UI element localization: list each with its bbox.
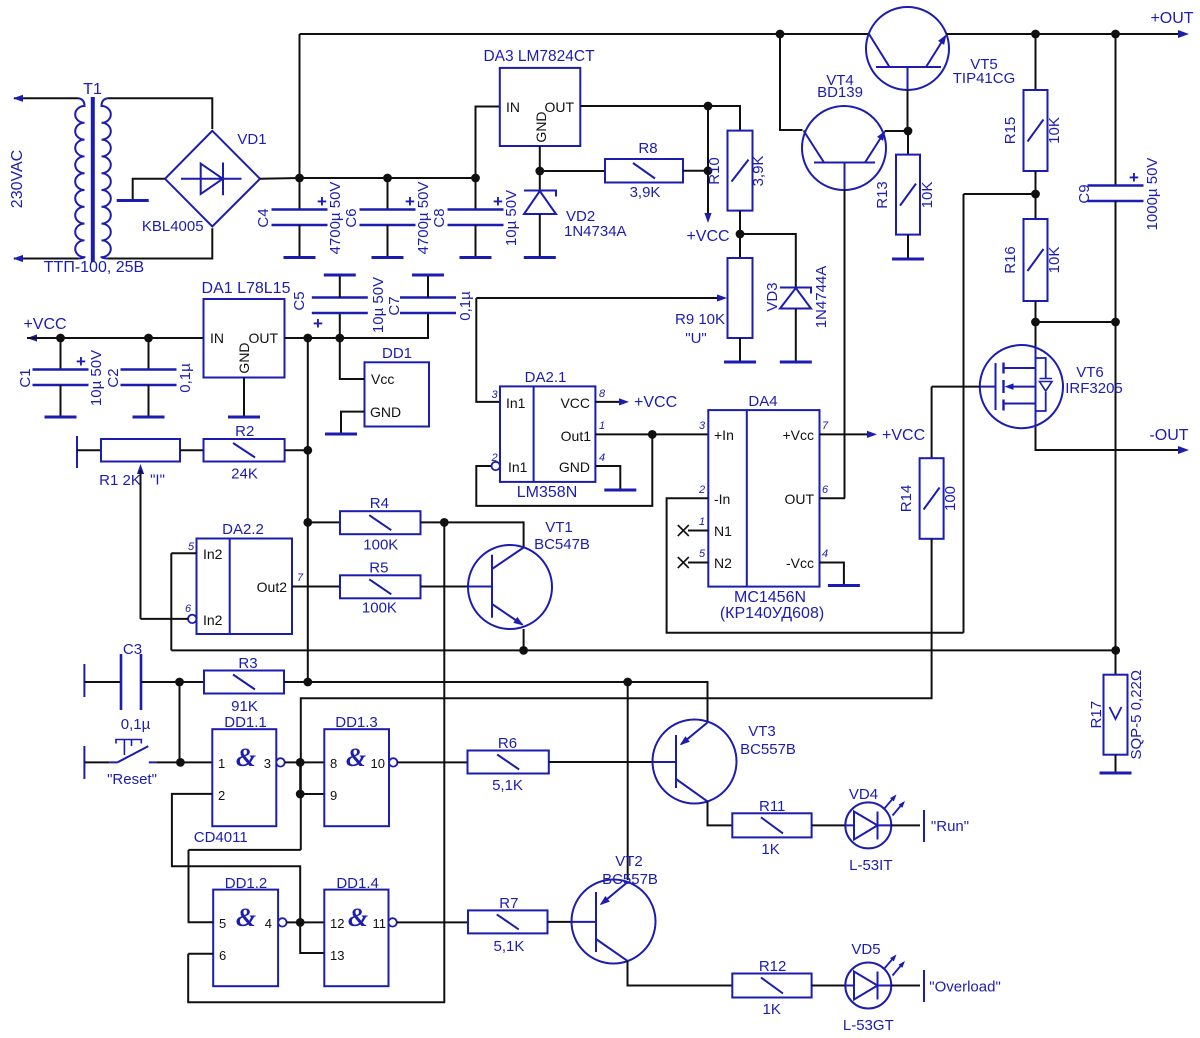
- node out1: [648, 430, 657, 439]
- node vd2: [535, 167, 544, 176]
- regulator DA1: [204, 299, 285, 378]
- svg-text:10µ 50V: 10µ 50V: [370, 277, 387, 333]
- node rail-R15: [1031, 30, 1040, 39]
- svg-text:+: +: [405, 192, 415, 211]
- wire R15 bottom: [1035, 171, 1037, 219]
- wire sense rail: [171, 649, 1115, 651]
- node rail-vt4: [776, 30, 785, 39]
- svg-text:KBL4005: KBL4005: [142, 218, 204, 235]
- svg-text:"U": "U": [685, 330, 706, 347]
- svg-text:&: &: [236, 903, 256, 932]
- svg-text:5,1K: 5,1K: [492, 777, 523, 794]
- wire R6 to VT3 base: [549, 761, 653, 763]
- wire primary bottom lead: [14, 258, 78, 260]
- svg-text:DA3 LM7824CT: DA3 LM7824CT: [483, 48, 595, 65]
- svg-text:5: 5: [219, 916, 226, 931]
- svg-text:8: 8: [330, 756, 337, 771]
- svg-text:+: +: [317, 192, 327, 211]
- resistor R4: [340, 511, 421, 534]
- svg-text:Out1: Out1: [561, 428, 592, 444]
- node vt5-base: [904, 127, 913, 136]
- wire VT5 base to R13: [907, 131, 909, 155]
- power pins DD1: [365, 362, 430, 426]
- svg-text:SQP-5 0,22Ω: SQP-5 0,22Ω: [1128, 670, 1145, 760]
- wire DA3 OUT to R10: [580, 106, 740, 131]
- wire R5 to VT1 base: [421, 586, 469, 588]
- svg-text:3: 3: [699, 420, 706, 432]
- node c2: [144, 334, 153, 343]
- wire C9 to sense rail: [1115, 322, 1117, 650]
- wire top rail right: [947, 33, 1185, 35]
- svg-text:1K: 1K: [761, 841, 779, 858]
- svg-text:1K: 1K: [763, 1001, 781, 1018]
- wire filter bus: [300, 177, 476, 179]
- svg-text:C1: C1: [17, 368, 34, 387]
- wire latch q to DD1.2 pin5: [189, 849, 301, 851]
- node bus-C6: [383, 174, 392, 183]
- svg-text:DA2.1: DA2.1: [525, 369, 567, 386]
- pin DD1.2 in5: [188, 921, 214, 923]
- svg-text:VD5: VD5: [851, 941, 880, 958]
- node q3: [296, 918, 305, 927]
- pin DA2.1 GND: [595, 466, 620, 489]
- gate DD1.3: [324, 729, 389, 826]
- svg-text:IRF3205: IRF3205: [1065, 380, 1123, 397]
- gate DD1.4: [324, 890, 388, 987]
- wire R17 bottom: [1115, 755, 1117, 772]
- resistor R10: [728, 131, 753, 211]
- capacitor C6: [387, 178, 389, 210]
- svg-text:VT6: VT6: [1076, 364, 1104, 381]
- svg-text:MC1456N: MC1456N: [734, 589, 806, 606]
- pushbutton Reset: [84, 761, 109, 763]
- svg-text:GND: GND: [533, 111, 549, 142]
- svg-text:R1 2K: R1 2K: [99, 472, 141, 489]
- svg-text:3,9K: 3,9K: [750, 156, 767, 187]
- svg-text:L-53IT: L-53IT: [849, 857, 892, 874]
- ground (C2): [133, 416, 165, 419]
- svg-text:R12: R12: [759, 958, 787, 975]
- power flag +VCC (R8 node): [707, 106, 709, 218]
- terminal (C3): [83, 664, 85, 697]
- svg-text:0,1µ: 0,1µ: [121, 716, 151, 733]
- wire VT2 emitter from rail: [627, 682, 629, 880]
- resistor R2: [204, 439, 285, 462]
- svg-text:"Run": "Run": [931, 818, 969, 835]
- svg-text:2: 2: [698, 484, 705, 496]
- wire R1 left: [77, 449, 101, 451]
- svg-text:N1: N1: [714, 523, 732, 539]
- LED VD5: [845, 963, 891, 1009]
- svg-text:7: 7: [297, 572, 304, 584]
- svg-text:C7: C7: [386, 296, 403, 315]
- svg-text:R7: R7: [499, 895, 518, 912]
- transistor VT6 (MOSFET): [980, 345, 1063, 428]
- ground (C4): [284, 256, 316, 259]
- svg-text:R14: R14: [898, 485, 915, 513]
- node r2: [303, 446, 312, 455]
- terminal (R1): [76, 436, 78, 468]
- wire bridge AC- to ground: [133, 179, 165, 199]
- wire R9 bottom: [739, 338, 741, 361]
- svg-text:BC547B: BC547B: [534, 536, 590, 553]
- pin DA2.2 in2+ (5): [171, 552, 196, 554]
- svg-text:VCC: VCC: [560, 395, 590, 411]
- LED VD4: [845, 802, 891, 848]
- pin DD1.1 out bubble: [276, 758, 284, 766]
- svg-text:+: +: [1129, 168, 1139, 187]
- wire VD4 to terminal: [891, 824, 920, 826]
- capacitor C7: [400, 298, 456, 314]
- wire +15V rail: [307, 338, 309, 682]
- wire VT2 collector to R12: [628, 961, 733, 986]
- svg-text:C6: C6: [343, 208, 360, 227]
- svg-text:GND: GND: [236, 342, 252, 373]
- power flag +VCC (DA4): [820, 433, 873, 435]
- terminal (Reset): [83, 746, 85, 779]
- wire DD1.2 out to DD1.4: [287, 921, 325, 923]
- node 15v-a: [303, 334, 312, 343]
- wire feedback to DA4: [964, 193, 1036, 195]
- svg-text:10K: 10K: [919, 182, 936, 209]
- svg-text:R5: R5: [369, 560, 388, 577]
- node c1: [56, 334, 65, 343]
- svg-text:"Reset": "Reset": [107, 771, 157, 788]
- transistor VT4: [802, 106, 886, 190]
- node r9-top: [736, 230, 745, 239]
- resistor R17: [1104, 675, 1128, 755]
- wire VT4 emitter to node: [885, 130, 909, 132]
- ground (C1): [45, 416, 77, 419]
- pin DA2.1 in1- bubble: [492, 462, 500, 470]
- pin DA2.2 in2- (6) bubble: [188, 615, 196, 623]
- node rail-vt2: [623, 678, 632, 687]
- pin DA4 -Vcc: [820, 563, 844, 585]
- op-amp DA2.2: [197, 539, 293, 635]
- ground (VD3): [780, 361, 812, 364]
- pin DA4 N1: [688, 530, 708, 532]
- svg-text:4: 4: [822, 548, 828, 560]
- wire VT6 gate to R14: [932, 386, 980, 388]
- wire R1 wiper to pin6: [141, 618, 189, 620]
- svg-text:C5: C5: [291, 291, 308, 310]
- resistor R11: [732, 813, 811, 837]
- node rail-C9: [1111, 30, 1120, 39]
- zener diode VD2: [539, 171, 541, 191]
- resistor R15: [1024, 90, 1048, 171]
- wire R17 top: [1115, 650, 1117, 674]
- svg-text:In1: In1: [506, 395, 526, 411]
- wire R9 wiper to DA2.1 pin3: [476, 298, 500, 402]
- svg-text:IN: IN: [506, 99, 520, 115]
- svg-text:IN: IN: [210, 330, 224, 346]
- svg-text:&: &: [346, 743, 366, 772]
- node sense-b: [1111, 318, 1120, 327]
- wire DD1 Vcc: [340, 338, 365, 379]
- svg-text:1N4744A: 1N4744A: [813, 266, 830, 329]
- svg-text:+In: +In: [714, 427, 734, 443]
- terminal (Overload): [923, 970, 925, 1002]
- wire R11 to VD4: [812, 824, 846, 826]
- svg-text:In2: In2: [203, 612, 223, 628]
- capacitor C9: [1115, 34, 1117, 186]
- wire VT3 collector to R11: [708, 801, 733, 825]
- gate DD1.2: [213, 890, 278, 987]
- op-amp DA2.1: [500, 386, 595, 482]
- svg-text:ТТП-100, 25В: ТТП-100, 25В: [44, 259, 144, 276]
- wire R16 bottom: [1035, 301, 1037, 346]
- svg-text:0,1µ: 0,1µ: [457, 291, 474, 321]
- terminal (Run): [923, 810, 925, 842]
- svg-text:10K: 10K: [1046, 117, 1063, 144]
- arrow +OUT: [1178, 30, 1189, 38]
- ground (DA2.1): [604, 489, 636, 492]
- node 15v-b: [335, 334, 344, 343]
- wire DA1 OUT bus: [285, 313, 429, 338]
- capacitor C3: [84, 681, 121, 683]
- svg-text:DD1.3: DD1.3: [335, 714, 378, 731]
- node reset: [176, 758, 185, 767]
- capacitor C5: [339, 313, 341, 338]
- ground (C7, inverted): [412, 274, 444, 277]
- wire DD1.1 out to DD1.3: [285, 761, 325, 763]
- svg-text:91K: 91K: [231, 698, 258, 715]
- resistor R16: [1024, 219, 1048, 301]
- resistor R12: [732, 974, 811, 998]
- svg-text:C4: C4: [255, 208, 272, 227]
- wire VT5 base: [907, 90, 909, 131]
- power flag +VCC (DA1 IN): [27, 334, 37, 341]
- svg-text:5,1K: 5,1K: [493, 938, 524, 955]
- wire secondary top to bridge: [108, 98, 212, 129]
- svg-text:R11: R11: [759, 798, 785, 815]
- node bus-C8: [471, 174, 480, 183]
- svg-text:T1: T1: [83, 81, 102, 98]
- pin DD1.4 out bubble: [388, 918, 396, 926]
- ground (R13): [892, 258, 924, 261]
- wire DD1.1 pin2 cross-couple: [172, 794, 300, 923]
- pin DD1.3 out bubble: [389, 758, 397, 766]
- transformer T1: [75, 98, 84, 258]
- wire R14 bottom to latch rail: [301, 539, 932, 850]
- svg-text:R6: R6: [498, 735, 517, 752]
- wire q to pin9: [300, 762, 324, 794]
- svg-text:BC557B: BC557B: [740, 741, 796, 758]
- svg-text:+VCC: +VCC: [686, 228, 729, 245]
- pin DD1.2 out bubble: [278, 918, 286, 926]
- node fb: [1031, 190, 1040, 199]
- svg-text:+VCC: +VCC: [23, 316, 66, 333]
- node DA3-out: [704, 102, 713, 111]
- svg-text:LM358N: LM358N: [517, 484, 577, 501]
- capacitor C8: [475, 178, 477, 210]
- op-amp DA4: [708, 410, 819, 586]
- wire DD1 GND: [341, 412, 365, 433]
- svg-text:VT3: VT3: [748, 723, 776, 740]
- svg-text:In2: In2: [203, 546, 223, 562]
- svg-text:R4: R4: [370, 495, 389, 512]
- svg-text:+VCC: +VCC: [882, 427, 925, 444]
- svg-text:1: 1: [599, 420, 605, 432]
- wire rail to R15: [1035, 34, 1037, 90]
- transistor VT5: [866, 7, 949, 90]
- svg-text:R17: R17: [1088, 701, 1105, 729]
- svg-text:BD139: BD139: [817, 84, 863, 101]
- potentiometer R1: [101, 439, 180, 462]
- svg-text:C8: C8: [431, 208, 448, 227]
- node q1: [296, 758, 305, 767]
- ground (DA1): [228, 416, 260, 419]
- svg-text:-OUT: -OUT: [1149, 427, 1188, 444]
- svg-text:6: 6: [822, 484, 829, 496]
- transformer T1 primary-top arrow: [13, 95, 23, 102]
- svg-text:0,1µ: 0,1µ: [177, 363, 194, 393]
- power flag +VCC (DA2.1): [595, 401, 624, 403]
- svg-text:OUT: OUT: [784, 491, 814, 507]
- svg-text:3: 3: [264, 756, 271, 771]
- svg-text:DA2.2: DA2.2: [222, 521, 264, 538]
- svg-text:5: 5: [699, 548, 706, 560]
- svg-text:"I": "I": [150, 472, 165, 489]
- svg-text:R13: R13: [874, 181, 891, 209]
- svg-text:C2: C2: [105, 368, 122, 387]
- svg-text:VD4: VD4: [849, 786, 878, 803]
- svg-text:6: 6: [219, 948, 226, 963]
- wire reset rail: [308, 682, 708, 722]
- svg-text:R9 10K: R9 10K: [675, 311, 725, 328]
- svg-text:9: 9: [330, 788, 337, 803]
- wire DA2.1 feedback: [476, 434, 652, 506]
- capacitor C2: [148, 338, 150, 370]
- wire VT1 emitter: [523, 629, 525, 650]
- svg-text:DD1.1: DD1.1: [224, 714, 267, 731]
- svg-text:100: 100: [942, 486, 959, 511]
- wire R3 right: [284, 681, 308, 683]
- svg-text:BC557B: BC557B: [602, 871, 658, 888]
- wire R10 to R9: [739, 211, 741, 258]
- wire R12 to VD5: [812, 985, 846, 987]
- svg-text:"Overload": "Overload": [929, 979, 1001, 996]
- svg-text:4: 4: [265, 916, 272, 931]
- svg-text:R2: R2: [235, 423, 254, 440]
- svg-text:C9: C9: [1076, 184, 1093, 203]
- wire VT6 source to -OUT: [1036, 428, 1185, 451]
- wire R7 to VT2 base: [548, 921, 572, 923]
- svg-text:+: +: [493, 192, 503, 211]
- svg-text:7: 7: [822, 420, 829, 432]
- wire VD3 branch: [740, 234, 796, 288]
- wire DA3 GND down: [539, 146, 541, 171]
- node r4-left: [303, 518, 312, 527]
- wire DA4 OUT to VT4 base: [820, 497, 846, 499]
- wire primary top lead: [14, 97, 78, 99]
- resistor R3: [180, 681, 205, 683]
- pin DA2.2 out2 (7): [292, 586, 340, 588]
- svg-text:VD3: VD3: [764, 282, 781, 311]
- pin DA4 N2: [688, 562, 708, 564]
- pin DA2.1 out1: [595, 433, 708, 435]
- wire R16 to C9 leg: [1036, 321, 1116, 323]
- svg-text:DD1.4: DD1.4: [336, 875, 379, 892]
- wire R9 wiper from DA2.1: [476, 297, 722, 299]
- svg-text:10K: 10K: [1046, 247, 1063, 274]
- svg-text:2: 2: [218, 788, 225, 803]
- wire c3 node to reset node: [179, 682, 181, 762]
- ground (VD2): [524, 256, 556, 259]
- node q2: [296, 790, 305, 799]
- wire VT4 base to DA4 OUT: [844, 190, 846, 498]
- transistor VT1: [468, 545, 552, 629]
- svg-text:13: 13: [330, 948, 344, 963]
- wire bus to DA3 IN: [476, 107, 500, 179]
- svg-text:DD1.2: DD1.2: [225, 875, 268, 892]
- svg-text:C3: C3: [123, 641, 142, 658]
- gate DD1.1: [212, 729, 276, 826]
- wire R1 to R2: [180, 449, 204, 451]
- wire DD1.4 out to R7: [397, 921, 468, 923]
- zener diode VD3: [780, 288, 811, 309]
- svg-text:R3: R3: [238, 655, 257, 672]
- svg-text:230VAC: 230VAC: [9, 150, 26, 208]
- svg-text:DA1 L78L15: DA1 L78L15: [202, 280, 291, 297]
- svg-text:4700µ 50V: 4700µ 50V: [415, 182, 432, 255]
- svg-text:TIP41CG: TIP41CG: [953, 70, 1016, 87]
- svg-text:12: 12: [330, 916, 344, 931]
- svg-text:4: 4: [599, 452, 605, 464]
- svg-text:GND: GND: [370, 404, 401, 420]
- svg-text:8: 8: [599, 388, 606, 400]
- regulator DA3: [500, 68, 581, 146]
- wire R4 right to VT1 collector: [421, 522, 524, 547]
- svg-text:+: +: [313, 314, 323, 333]
- svg-text:GND: GND: [559, 459, 590, 475]
- node c3-r3: [175, 678, 184, 687]
- svg-text:10µ 50V: 10µ 50V: [88, 350, 105, 406]
- svg-text:4700µ 50V: 4700µ 50V: [327, 182, 344, 255]
- transistor VT3: [653, 720, 737, 804]
- svg-text:R15: R15: [1002, 117, 1019, 145]
- svg-text:N2: N2: [714, 555, 732, 571]
- ground (DA4): [828, 584, 860, 587]
- svg-text:24K: 24K: [231, 466, 258, 483]
- resistor R14: [920, 458, 944, 539]
- wire R2 right: [285, 449, 308, 451]
- ground (C6): [372, 256, 404, 259]
- ground (R9): [724, 361, 756, 364]
- transformer T1 primary-bottom arrow: [13, 255, 23, 262]
- wire latch set line: [188, 522, 444, 1002]
- wire riser to top rail: [299, 34, 301, 178]
- ground (bridge): [117, 199, 149, 202]
- svg-text:(КР140УД608): (КР140УД608): [720, 605, 824, 622]
- svg-text:5: 5: [188, 541, 195, 553]
- svg-text:&: &: [236, 743, 256, 772]
- svg-text:Vcc: Vcc: [371, 371, 394, 387]
- resistor R5: [340, 575, 421, 598]
- resistor R6: [468, 751, 549, 774]
- svg-text:11: 11: [373, 916, 387, 931]
- capacitor C4: [299, 178, 301, 210]
- svg-text:3,9K: 3,9K: [630, 184, 661, 201]
- node sense-a: [1031, 318, 1040, 327]
- svg-text:+Vcc: +Vcc: [782, 427, 814, 443]
- wire R8 right: [683, 170, 708, 172]
- resistor R13: [896, 155, 920, 235]
- svg-text:10µ 50V: 10µ 50V: [503, 190, 520, 246]
- resistor R7: [468, 910, 548, 933]
- wire DD1.3 out to R6: [397, 761, 467, 763]
- svg-text:VT2: VT2: [615, 853, 643, 870]
